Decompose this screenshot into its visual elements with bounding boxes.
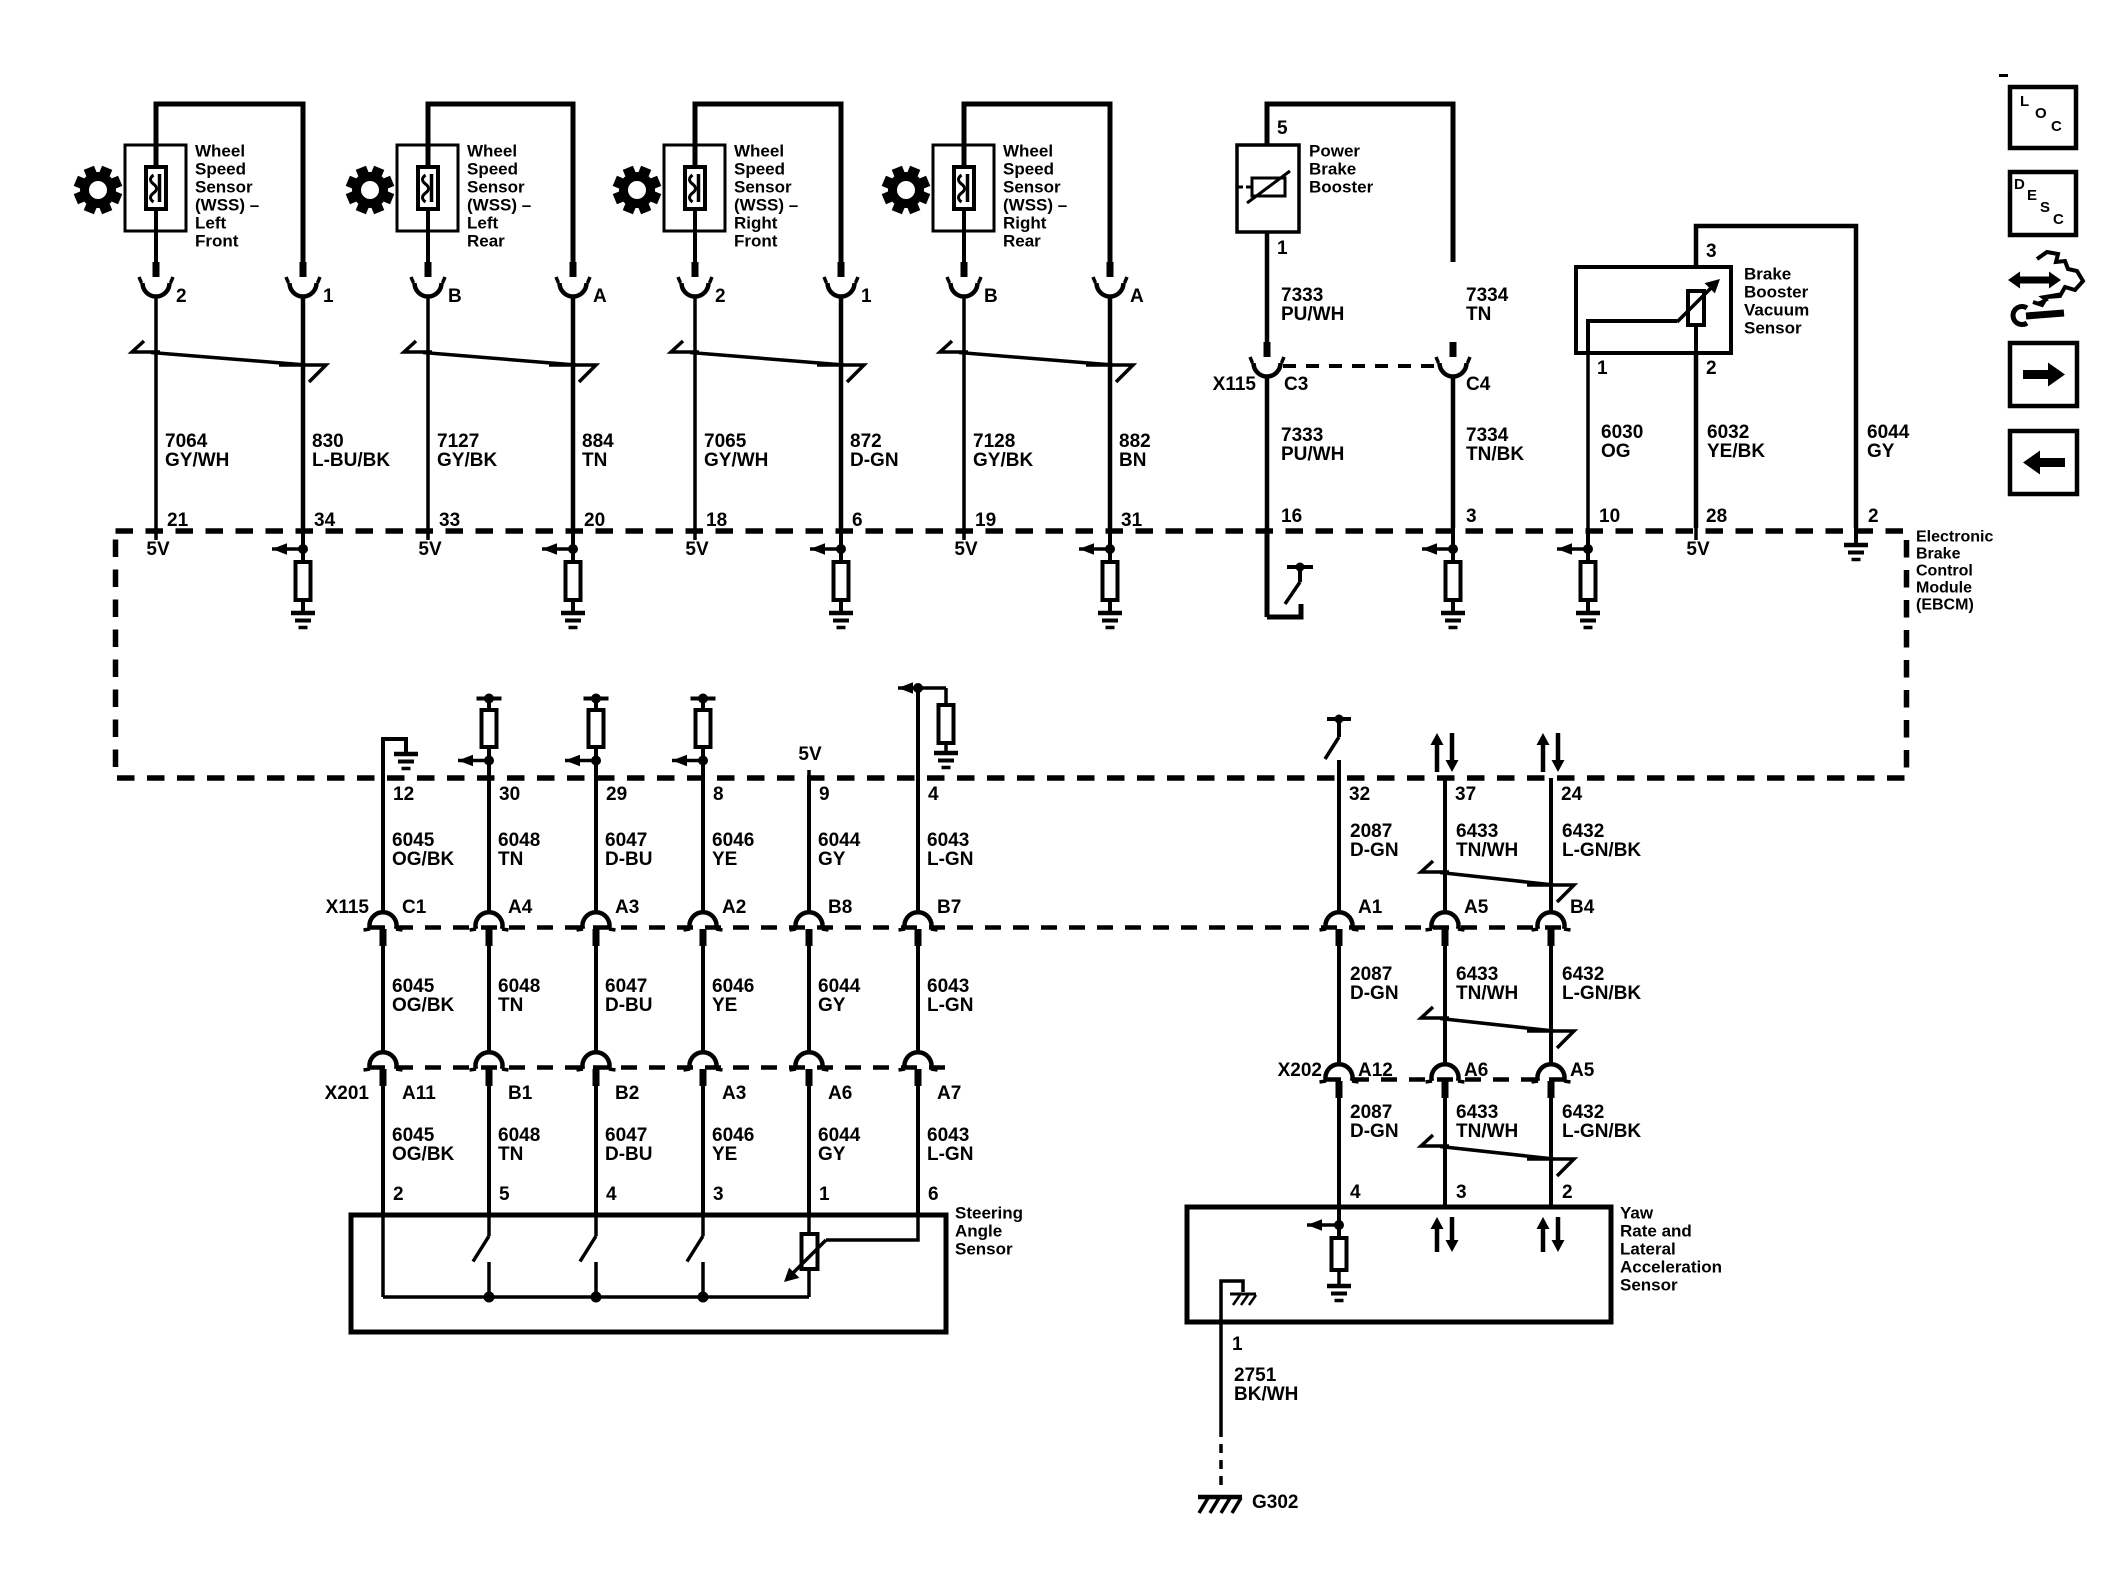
wire - 7333 PU/WH lower	[1265, 378, 1270, 528]
connector X115 terminal B7	[899, 912, 938, 946]
wire - WSS right rear left lead	[962, 209, 966, 263]
svg-text:21: 21	[167, 510, 189, 531]
svg-text:6032: 6032	[1707, 422, 1749, 443]
wire - WSS right front top loop	[695, 104, 841, 262]
svg-text:7064: 7064	[165, 431, 208, 452]
svg-text:18: 18	[706, 510, 727, 531]
label - Brake Booster Vacuum Sensor	[1744, 264, 1809, 337]
svg-text:Brake: Brake	[1309, 159, 1356, 178]
connector X201 terminal A6	[790, 1052, 829, 1086]
EBCM internal ground at pin 12	[383, 739, 418, 778]
svg-text:2: 2	[1562, 1182, 1573, 1203]
svg-text:Right: Right	[734, 213, 778, 232]
svg-text:C4: C4	[1466, 374, 1491, 395]
wire - 6046 YE EBCM to X115	[701, 778, 705, 913]
connector X115 terminal B8	[790, 912, 829, 946]
yaw sensor internal resistor at pin 4	[1307, 1207, 1351, 1301]
ground - EBCM internal at pin 10	[1576, 613, 1600, 628]
label - EBCM pin 31	[1121, 510, 1143, 531]
svg-text:8: 8	[713, 784, 724, 805]
label - yaw sensor pin 3	[1456, 1182, 1467, 1203]
wire - 7064 GY/WH	[154, 298, 158, 528]
svg-text:Brake: Brake	[1916, 546, 1961, 563]
wheel speed sensor right rear element	[954, 167, 974, 209]
svg-text:4: 4	[606, 1184, 617, 1205]
svg-text:Rear: Rear	[467, 231, 505, 250]
wire - 872 D-GN	[839, 298, 844, 528]
svg-text:9: 9	[819, 784, 830, 805]
wire - 2087 D-GN X202 to yaw sensor	[1337, 1098, 1341, 1207]
connector X201 terminal A11	[364, 1052, 403, 1086]
label - terminal B8	[828, 897, 852, 918]
label - terminal A7 X201	[937, 1083, 961, 1104]
svg-text:B1: B1	[508, 1083, 533, 1104]
svg-text:Electronic: Electronic	[1916, 529, 1993, 546]
label - wire 6043 L-GN row B	[927, 976, 973, 1016]
svg-text:7128: 7128	[973, 431, 1015, 452]
label - EBCM pin 3	[1466, 506, 1477, 527]
label - terminal A5	[1464, 897, 1489, 918]
svg-text:7333: 7333	[1281, 285, 1323, 306]
svg-text:GY/WH: GY/WH	[704, 450, 768, 471]
svg-text:TN: TN	[1466, 304, 1491, 325]
svg-text:5: 5	[1277, 118, 1288, 139]
label - EBCM pin 28	[1706, 506, 1727, 527]
svg-text:6: 6	[852, 510, 863, 531]
label - X115 at booster	[1213, 374, 1257, 395]
svg-text:34: 34	[314, 510, 336, 531]
wire - 2087 D-GN X115 to X202	[1337, 946, 1341, 1066]
EBCM internal pull-down at pin 10	[1557, 528, 1596, 613]
connector pin A of WSS left rear	[556, 262, 607, 307]
wheel speed sensor left front gear icon	[74, 166, 123, 215]
wire - 7333 PU/WH upper	[1265, 232, 1270, 342]
svg-text:Sensor: Sensor	[1744, 318, 1802, 337]
svg-text:Wheel: Wheel	[195, 141, 245, 160]
svg-text:(WSS) –: (WSS) –	[467, 195, 531, 214]
svg-text:B: B	[448, 286, 462, 307]
svg-text:29: 29	[606, 784, 627, 805]
EBCM internal serial data arrows at pin 24	[1537, 733, 1565, 772]
wheel speed sensor right rear housing box	[933, 145, 994, 231]
svg-text:Front: Front	[734, 231, 778, 250]
label - terminal A11 X201	[402, 1083, 436, 1104]
svg-text:TN: TN	[498, 849, 523, 870]
svg-text:Control: Control	[1916, 563, 1973, 580]
svg-text:E: E	[2027, 187, 2037, 204]
svg-text:X115: X115	[1213, 374, 1257, 395]
wheel speed sensor left front element	[146, 167, 166, 209]
label - wire 830 L-BU/BK	[312, 431, 390, 471]
label - wire 6044 GY row C	[818, 1125, 861, 1165]
svg-text:A2: A2	[722, 897, 746, 918]
wire - 6048 TN X115 to X201	[487, 946, 491, 1054]
svg-text:6044: 6044	[818, 830, 861, 851]
svg-text:D-BU: D-BU	[605, 1144, 653, 1165]
svg-text:GY/BK: GY/BK	[973, 450, 1033, 471]
svg-text:L-GN/BK: L-GN/BK	[1562, 1121, 1641, 1142]
svg-text:2: 2	[1868, 506, 1879, 527]
wheel speed sensor right front gear icon	[613, 166, 662, 215]
svg-text:1: 1	[1597, 358, 1608, 379]
label - wire 7128 GY/BK	[973, 431, 1033, 471]
svg-text:Right: Right	[1003, 213, 1047, 232]
svg-text:C: C	[2053, 211, 2064, 228]
label - wire 6044 GY right	[1867, 422, 1910, 462]
label - terminal C3	[1284, 374, 1308, 395]
label - yaw sensor pin 4	[1350, 1182, 1361, 1203]
switch - steering sensor contact pin 4	[580, 1215, 602, 1303]
svg-text:3: 3	[1706, 241, 1717, 262]
svg-text:Sensor: Sensor	[195, 177, 253, 196]
svg-text:Speed: Speed	[467, 159, 518, 178]
label - wire 6044 GY row A	[818, 830, 861, 870]
svg-text:L-BU/BK: L-BU/BK	[312, 450, 390, 471]
svg-text:BK/WH: BK/WH	[1234, 1384, 1298, 1405]
svg-text:A12: A12	[1358, 1060, 1393, 1081]
svg-text:7334: 7334	[1466, 425, 1509, 446]
wire - 2751 BK/WH	[1219, 1322, 1223, 1428]
label - wire 6046 YE row C	[712, 1125, 754, 1165]
label - Steering Angle Sensor	[955, 1203, 1023, 1258]
svg-text:16: 16	[1281, 506, 1302, 527]
svg-text:7334: 7334	[1466, 285, 1509, 306]
svg-text:6046: 6046	[712, 1125, 754, 1146]
ground - EBCM internal at pin 34	[291, 613, 315, 628]
svg-text:3: 3	[1456, 1182, 1467, 1203]
svg-text:6030: 6030	[1601, 422, 1643, 443]
svg-text:6: 6	[928, 1184, 939, 1205]
label - wire 7064 GY/WH	[165, 431, 229, 471]
label - EBCM pin 30 bottom	[499, 784, 520, 805]
svg-text:TN/BK: TN/BK	[1466, 444, 1524, 465]
wheel speed sensor left front housing box	[125, 145, 186, 231]
svg-text:YE/BK: YE/BK	[1707, 441, 1765, 462]
wire - 6044 GY X115 to X201	[807, 946, 811, 1054]
svg-text:6047: 6047	[605, 830, 647, 851]
yaw rate and lateral acceleration sensor box	[1187, 1207, 1611, 1322]
connector X201 terminal A3	[684, 1052, 723, 1086]
svg-text:PU/WH: PU/WH	[1281, 304, 1344, 325]
connector pin A of WSS right rear	[1093, 262, 1144, 307]
svg-text:6046: 6046	[712, 976, 754, 997]
wire - power brake booster loop	[1267, 104, 1453, 262]
power brake booster box	[1237, 145, 1299, 232]
wire - 6044 GY loop to vacuum sensor	[1696, 226, 1856, 528]
svg-text:TN/WH: TN/WH	[1456, 840, 1518, 861]
svg-text:D-GN: D-GN	[1350, 1121, 1399, 1142]
label - EBCM pin 29 bottom	[606, 784, 627, 805]
svg-text:Angle: Angle	[955, 1221, 1002, 1240]
label - Power Brake Booster	[1309, 141, 1374, 196]
wire - 6433 TN/WH X115 to X202	[1443, 946, 1447, 1066]
svg-text:30: 30	[499, 784, 520, 805]
svg-text:5V: 5V	[146, 539, 170, 560]
wheel speed sensor left rear housing box	[397, 145, 458, 231]
label - EBCM pin 6	[852, 510, 863, 531]
label - Wheel Speed Sensor (WSS) left front	[195, 141, 259, 250]
twisted pair - WSS right rear	[940, 341, 1133, 382]
label - EBCM pin 16	[1281, 506, 1302, 527]
svg-text:B7: B7	[937, 897, 961, 918]
wire - vacuum sensor internal	[1588, 321, 1696, 353]
label - wire 6433 TN/WH row A	[1456, 821, 1518, 861]
svg-text:A3: A3	[722, 1083, 746, 1104]
svg-text:A3: A3	[615, 897, 639, 918]
label - terminal A3	[615, 897, 639, 918]
label - EBCM pin 2 right	[1868, 506, 1879, 527]
label - wire 882 BN	[1119, 431, 1151, 471]
svg-text:BN: BN	[1119, 450, 1146, 471]
EBCM internal serial data arrows at pin 37	[1431, 733, 1459, 772]
svg-text:PU/WH: PU/WH	[1281, 444, 1344, 465]
svg-text:Acceleration: Acceleration	[1620, 1257, 1722, 1276]
svg-text:A6: A6	[1464, 1060, 1488, 1081]
svg-text:12: 12	[393, 784, 414, 805]
svg-text:Wheel: Wheel	[467, 141, 517, 160]
wire - WSS left front left lead	[154, 209, 158, 263]
svg-text:2751: 2751	[1234, 1365, 1277, 1386]
wheel speed sensor left rear element	[418, 167, 438, 209]
label - wire 2751 BK/WH	[1234, 1365, 1298, 1405]
label - wire 7333 PU/WH lower	[1281, 425, 1344, 465]
label - 5V supply at EBCM pin 28	[1686, 528, 1710, 560]
icon - component view (car outline with arrows and wrench)	[2008, 252, 2083, 325]
svg-text:D-GN: D-GN	[1350, 840, 1399, 861]
label - EBCM pin 9 bottom	[819, 784, 830, 805]
label - EBCM pin 4 bottom	[928, 784, 939, 805]
svg-text:GY: GY	[1867, 441, 1895, 462]
svg-text:6044: 6044	[818, 1125, 861, 1146]
wire - 6432 L-GN/BK X115 to X202	[1549, 946, 1553, 1066]
wire - 2751 BK/WH dashed section	[1219, 1428, 1223, 1489]
svg-text:S: S	[2040, 199, 2050, 216]
svg-text:Module: Module	[1916, 580, 1972, 597]
svg-text:Booster: Booster	[1309, 177, 1374, 196]
wire - 7334 TN/BK lower	[1451, 378, 1456, 528]
svg-text:C1: C1	[402, 897, 427, 918]
wire - 6048 TN X201 to steering sensor	[487, 1086, 491, 1215]
wire - WSS left rear left lead	[426, 209, 430, 263]
svg-text:19: 19	[975, 510, 996, 531]
label - G302	[1252, 1492, 1298, 1513]
svg-text:4: 4	[928, 784, 939, 805]
label - wire 7333 PU/WH upper	[1281, 285, 1344, 325]
connector X115 C4	[1436, 342, 1470, 377]
svg-text:TN/WH: TN/WH	[1456, 1121, 1518, 1142]
label - 5V supply at EBCM pin 33	[418, 528, 442, 560]
svg-text:6048: 6048	[498, 1125, 540, 1146]
svg-text:Steering: Steering	[955, 1203, 1023, 1222]
label - vacuum sensor pin 2	[1706, 358, 1717, 379]
svg-text:24: 24	[1561, 784, 1583, 805]
svg-text:Speed: Speed	[195, 159, 246, 178]
svg-text:6045: 6045	[392, 976, 435, 997]
wire - steering sensor pin 2 internal	[381, 1215, 385, 1297]
svg-text:A6: A6	[828, 1083, 852, 1104]
svg-text:20: 20	[584, 510, 605, 531]
wire - 6045 OG/BK X115 to X201	[381, 946, 385, 1054]
label - terminal A6 X202	[1464, 1060, 1488, 1081]
connector X115 terminal A2	[684, 912, 723, 946]
svg-text:1: 1	[819, 1184, 830, 1205]
wheel speed sensor left rear gear icon	[346, 166, 395, 215]
svg-text:10: 10	[1599, 506, 1620, 527]
svg-text:OG/BK: OG/BK	[392, 1144, 455, 1165]
label - steering sensor pin 5	[499, 1184, 510, 1205]
svg-text:5: 5	[499, 1184, 510, 1205]
label - terminal B4	[1570, 897, 1595, 918]
svg-text:32: 32	[1349, 784, 1370, 805]
wheel speed sensor right front housing box	[664, 145, 725, 231]
wire - WSS left front top loop	[156, 104, 303, 262]
wire - WSS right front left lead	[693, 209, 697, 263]
twisted pair - yaw sensor row A	[1421, 861, 1574, 902]
label - 5V supply at EBCM pin 18	[685, 528, 709, 560]
svg-text:Front: Front	[195, 231, 239, 250]
svg-text:31: 31	[1121, 510, 1143, 531]
connector X201 terminal B2	[577, 1052, 616, 1086]
wire - 6043 L-GN EBCM to X115	[916, 778, 920, 913]
label - wire 6043 L-GN row A	[927, 830, 973, 870]
connector pin 2 of WSS right front	[678, 262, 726, 307]
label - wire 6032 YE/BK	[1707, 422, 1765, 462]
EBCM internal switch at pin 32	[1325, 715, 1351, 779]
svg-text:B: B	[984, 286, 998, 307]
wire - WSS right rear top loop	[964, 104, 1110, 262]
wire - WSS left rear top loop	[428, 104, 573, 262]
svg-text:A: A	[593, 286, 607, 307]
EBCM internal pull-down at pin 31	[1079, 528, 1118, 613]
svg-text:Power: Power	[1309, 141, 1360, 160]
svg-text:GY: GY	[818, 995, 846, 1016]
label - terminal A5 X202	[1570, 1060, 1595, 1081]
label - wire 6047 D-BU row B	[605, 976, 653, 1016]
label - X201	[325, 1083, 370, 1104]
svg-text:(WSS) –: (WSS) –	[1003, 195, 1067, 214]
svg-text:6047: 6047	[605, 1125, 647, 1146]
label - Wheel Speed Sensor (WSS) right rear	[1003, 141, 1067, 250]
label - wire 6048 TN row C	[498, 1125, 540, 1165]
svg-text:OG/BK: OG/BK	[392, 849, 455, 870]
ground - EBCM internal at pin 2	[1844, 528, 1868, 560]
svg-text:Wheel: Wheel	[1003, 141, 1053, 160]
svg-text:B4: B4	[1570, 897, 1595, 918]
svg-text:TN/WH: TN/WH	[1456, 983, 1518, 1004]
svg-text:6045: 6045	[392, 830, 435, 851]
EBCM internal switch at pin 16	[1267, 528, 1313, 617]
wheel speed sensor right rear gear icon	[882, 166, 931, 215]
svg-text:Rear: Rear	[1003, 231, 1041, 250]
wire - steering sensor pin 6 internal	[826, 1215, 918, 1240]
connector X201 terminal A7	[899, 1052, 938, 1086]
label - steering sensor pin 6	[928, 1184, 939, 1205]
label - wire 6432 L-GN/BK row C	[1562, 1102, 1641, 1142]
svg-text:6048: 6048	[498, 976, 540, 997]
svg-text:6433: 6433	[1456, 964, 1498, 985]
svg-text:2087: 2087	[1350, 1102, 1392, 1123]
svg-text:A5: A5	[1570, 1060, 1595, 1081]
svg-text:5V: 5V	[954, 539, 978, 560]
label - terminal B2 X201	[615, 1083, 639, 1104]
label - terminal A12 X202	[1358, 1060, 1393, 1081]
label - terminal A4	[508, 897, 533, 918]
ground - EBCM internal at pin 31	[1098, 613, 1122, 628]
label - 5V supply at EBCM pin 19	[954, 528, 978, 560]
svg-text:Sensor: Sensor	[1003, 177, 1061, 196]
svg-text:Left: Left	[467, 213, 499, 232]
wire - 6433 TN/WH X202 to yaw sensor	[1443, 1098, 1447, 1207]
wire - 6046 YE X115 to X201	[701, 946, 705, 1054]
svg-text:TN: TN	[498, 995, 523, 1016]
label - wire 6044 GY row B	[818, 976, 861, 1016]
svg-text:3: 3	[1466, 506, 1477, 527]
svg-text:L-GN/BK: L-GN/BK	[1562, 983, 1641, 1004]
connector X115 terminal A4	[470, 912, 509, 946]
wire - inline connector dotted link C3-C4	[1283, 364, 1437, 368]
label - wire 6045 OG/BK row A	[392, 830, 455, 870]
label - EBCM pin 18	[706, 510, 727, 531]
svg-text:Yaw: Yaw	[1620, 1203, 1654, 1222]
switch - steering sensor contact pin 5	[473, 1215, 495, 1303]
wire - 6047 D-BU X201 to steering sensor	[594, 1086, 598, 1215]
label - wire 6046 YE row B	[712, 976, 754, 1016]
svg-text:7333: 7333	[1281, 425, 1323, 446]
label - terminal A6 X201	[828, 1083, 852, 1104]
vacuum sensor potentiometer element	[1677, 279, 1720, 325]
svg-text:6433: 6433	[1456, 821, 1498, 842]
svg-text:(WSS) –: (WSS) –	[734, 195, 798, 214]
label - vacuum sensor pin 3	[1706, 241, 1717, 262]
EBCM internal pull-down at pin 3	[1422, 528, 1461, 613]
svg-text:Left: Left	[195, 213, 227, 232]
svg-text:OG: OG	[1601, 441, 1631, 462]
label - Wheel Speed Sensor (WSS) left rear	[467, 141, 531, 250]
label - X202	[1278, 1060, 1322, 1081]
wheel speed sensor right front element	[685, 167, 705, 209]
potentiometer - steering sensor	[784, 1215, 826, 1297]
label - EBCM pin 19	[975, 510, 996, 531]
label - wire 6433 TN/WH row C	[1456, 1102, 1518, 1142]
svg-text:5V: 5V	[798, 744, 822, 765]
svg-text:7065: 7065	[704, 431, 747, 452]
label - wire 872 D-GN	[850, 431, 899, 471]
svg-text:OG/BK: OG/BK	[392, 995, 455, 1016]
EBCM internal pull-down at pin 34	[272, 528, 311, 613]
label - wire 6433 TN/WH row B	[1456, 964, 1518, 1004]
label - wire 6047 D-BU row A	[605, 830, 653, 870]
svg-text:G302: G302	[1252, 1492, 1298, 1513]
svg-text:Sensor: Sensor	[1620, 1275, 1678, 1294]
svg-text:1: 1	[1232, 1334, 1243, 1355]
icon - back arrow box	[2010, 431, 2077, 494]
svg-text:6045: 6045	[392, 1125, 435, 1146]
connector X115 dotted line	[369, 925, 1567, 930]
wire - 6032 YE/BK	[1694, 353, 1699, 528]
label - wire 6045 OG/BK row C	[392, 1125, 455, 1165]
connector pin B of WSS left rear	[411, 262, 462, 307]
connector X115 terminal A5	[1426, 912, 1465, 946]
wire - 6044 GY X201 to steering sensor	[807, 1086, 811, 1215]
svg-text:TN: TN	[498, 1144, 523, 1165]
steering angle sensor box	[351, 1215, 946, 1332]
svg-text:6044: 6044	[818, 976, 861, 997]
label - terminal A2	[722, 897, 746, 918]
svg-text:YE: YE	[712, 1144, 737, 1165]
svg-text:C3: C3	[1284, 374, 1308, 395]
svg-text:6043: 6043	[927, 1125, 969, 1146]
mark - page tick	[1999, 74, 2008, 77]
